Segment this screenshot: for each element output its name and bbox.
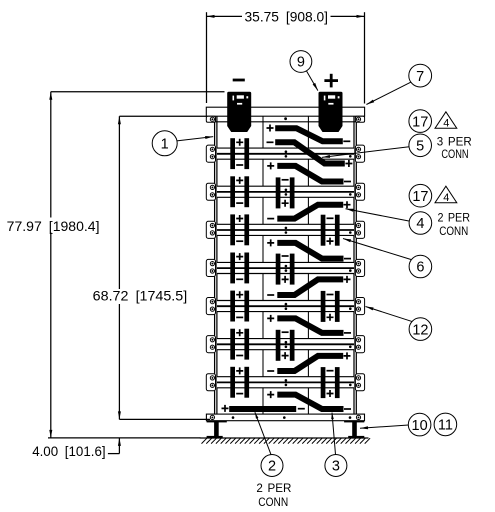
shelf S5 right clip xyxy=(355,259,364,276)
svg-text:2 PER: 2 PER xyxy=(256,481,291,495)
svg-text:1: 1 xyxy=(161,137,169,153)
shelf S6 left clip xyxy=(206,298,215,315)
tier7 strap labels xyxy=(267,352,350,371)
dimension 35.75 [908.0] xyxy=(207,9,365,104)
left cell inter-row connector pair xyxy=(230,176,249,207)
tier1 long inter-row strap xyxy=(275,142,345,163)
note 2 PER CONN bottom xyxy=(256,481,291,509)
balloon 2 xyxy=(261,455,283,477)
right cell inter-row connector pair xyxy=(321,367,340,398)
shelf rail S2 xyxy=(217,148,354,159)
tier1 strap labels xyxy=(267,125,351,142)
svg-text:4.00 [101.6]: 4.00 [101.6] xyxy=(32,443,105,459)
tier4 intercell strap xyxy=(277,243,343,259)
shelf S6 right clip xyxy=(355,298,364,315)
shelf S3 right clip xyxy=(355,183,364,200)
shelf rail S7 xyxy=(217,339,354,350)
top rail xyxy=(206,107,364,122)
right foot xyxy=(344,421,364,439)
svg-text:12: 12 xyxy=(412,322,428,338)
balloon 10 leader xyxy=(360,425,409,429)
left cell inter-row connector pair xyxy=(230,138,249,169)
tier2 intercell strap xyxy=(277,166,343,182)
balloon 3 leader xyxy=(331,413,335,455)
right cell inter-row connector pair xyxy=(321,215,340,246)
battery negative terminal post xyxy=(227,92,251,132)
svg-text:68.72 [1745.5]: 68.72 [1745.5] xyxy=(93,288,187,304)
shelf rail S4 xyxy=(217,224,354,235)
tier5 strap labels xyxy=(267,276,350,295)
svg-text:4: 4 xyxy=(443,192,449,204)
balloon 12 leader xyxy=(366,307,413,322)
right cell inter-row connector pair xyxy=(321,291,340,322)
tier8 bottom row strap xyxy=(229,406,296,412)
tier1 long strap labels xyxy=(267,142,353,167)
balloon 2 leader xyxy=(255,412,271,454)
balloon 1 xyxy=(152,131,177,156)
tier6 intercell strap xyxy=(277,318,343,333)
dimension 68.72 [1745.5] xyxy=(93,116,210,419)
shelf S2 left clip xyxy=(206,145,215,162)
shelf S5 left clip xyxy=(206,259,215,276)
svg-text:CONN: CONN xyxy=(258,495,288,509)
svg-text:2: 2 xyxy=(268,459,276,475)
shelf rail S3 xyxy=(217,186,354,197)
left cell inter-row connector pair xyxy=(230,253,249,284)
svg-text:3: 3 xyxy=(332,459,340,475)
svg-text:CONN: CONN xyxy=(441,147,468,161)
svg-text:CONN: CONN xyxy=(439,224,468,238)
left foot xyxy=(207,421,227,439)
rail step verticals between shelf clips xyxy=(215,122,357,414)
shelf S8 left clip xyxy=(206,374,215,391)
balloon 6 leader xyxy=(343,239,411,260)
large plus symbol xyxy=(324,74,338,88)
left cell inter-row connector pair xyxy=(230,367,249,398)
large minus symbol xyxy=(233,79,245,82)
balloon 12 xyxy=(409,318,432,341)
dimension 77.97 [1980.4] xyxy=(7,92,225,438)
balloon 7 leader xyxy=(366,82,411,105)
svg-text:17: 17 xyxy=(412,114,428,130)
svg-text:7: 7 xyxy=(416,69,424,85)
balloon 10 xyxy=(408,413,431,436)
balloon 7 xyxy=(409,64,432,87)
shelf S7 left clip xyxy=(206,336,215,353)
tier8 strap labels xyxy=(267,391,351,409)
balloon 4 leader xyxy=(346,209,410,221)
balloon 6 xyxy=(409,255,432,278)
svg-text:6: 6 xyxy=(416,260,424,276)
svg-text:17: 17 xyxy=(412,189,428,205)
battery positive terminal post xyxy=(319,92,343,132)
shelf S4 right clip xyxy=(355,221,364,238)
tier8 bottom strap labels xyxy=(222,405,305,412)
middle cell inter-row connector pair xyxy=(276,254,295,285)
tier5 intercell strap xyxy=(277,279,343,295)
bottom rail xyxy=(206,414,364,421)
left cell inter-row connector pair xyxy=(230,329,249,360)
tier8 intercell strap xyxy=(277,395,343,409)
tier7 intercell strap xyxy=(277,356,343,371)
middle cell inter-row connector pair xyxy=(276,330,295,361)
balloon 9 leader xyxy=(306,71,318,91)
balloon 5 xyxy=(409,134,432,157)
tier6 strap labels xyxy=(267,315,351,333)
top rail right clip xyxy=(355,116,364,122)
svg-text:77.97 [1980.4]: 77.97 [1980.4] xyxy=(7,218,100,234)
tier1 intercell strap upper xyxy=(275,128,343,141)
svg-text:10: 10 xyxy=(412,418,428,434)
tier4 strap labels xyxy=(267,239,351,258)
svg-text:11: 11 xyxy=(438,418,453,434)
shelf S2 right clip xyxy=(355,145,364,162)
balloon 17 first xyxy=(409,110,432,133)
svg-text:9: 9 xyxy=(297,55,305,71)
left cell inter-row connector pair xyxy=(230,291,249,322)
tier3 intercell strap xyxy=(277,205,343,219)
dimension 4.00 [101.6] xyxy=(32,438,121,459)
svg-text:35.75 [908.0]: 35.75 [908.0] xyxy=(245,9,329,25)
tier2 strap labels xyxy=(267,162,351,181)
balloon 1 leader xyxy=(177,136,213,141)
balloon 5 leader xyxy=(322,147,409,158)
battery cell divider lines xyxy=(263,116,308,414)
shelf rail S6 xyxy=(217,301,354,312)
balloon 3 xyxy=(325,455,347,477)
middle cell inter-row connector pair xyxy=(276,177,295,208)
balloon 4 xyxy=(409,212,432,235)
svg-text:4: 4 xyxy=(443,118,449,130)
note 3 PER CONN xyxy=(437,135,472,161)
top rail left clip xyxy=(206,116,215,122)
balloon 9 xyxy=(290,51,312,73)
shelf S8 right clip xyxy=(355,374,364,391)
shelf S3 left clip xyxy=(206,183,215,200)
note 2 PER CONN upper xyxy=(438,211,471,239)
flag triangle 4 first xyxy=(435,112,457,130)
shelf rail S8 xyxy=(217,377,354,388)
left cell inter-row connector pair xyxy=(230,214,249,245)
flag triangle 4 second xyxy=(435,186,457,204)
balloon 11 xyxy=(434,413,457,436)
shelf S4 left clip xyxy=(206,221,215,238)
balloon 17 second xyxy=(409,184,432,207)
ground line and hatching xyxy=(200,438,370,444)
svg-text:4: 4 xyxy=(416,216,424,232)
shelf rail S5 xyxy=(217,262,354,273)
shelf S7 right clip xyxy=(355,336,364,353)
svg-text:5: 5 xyxy=(416,139,424,155)
svg-text:2 PER: 2 PER xyxy=(438,211,471,225)
tier3 strap labels xyxy=(267,201,350,218)
rack inner vertical rail edges xyxy=(217,116,354,414)
